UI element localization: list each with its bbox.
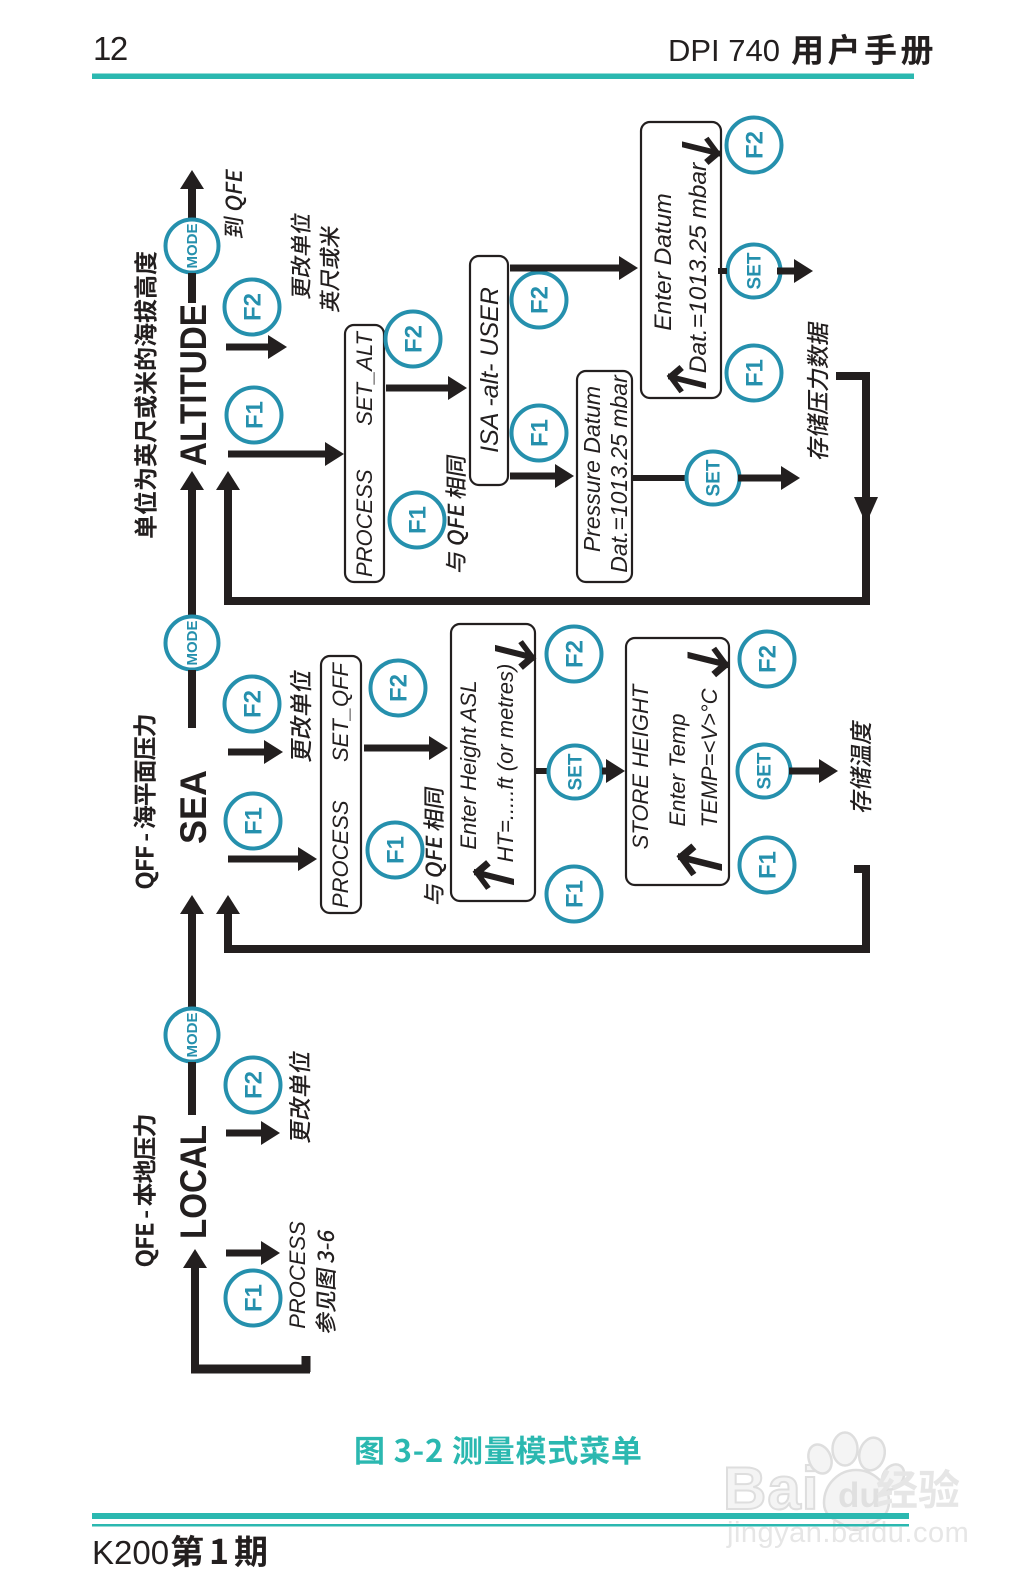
shaft MODE-SEA	[188, 670, 196, 728]
arrow F1 local process	[226, 1241, 280, 1265]
watermark Baidu logo	[723, 1455, 819, 1522]
footer 第 1 期	[171, 1535, 266, 1567]
sea feedback horizontal	[226, 945, 870, 953]
svg-text:SET: SET	[755, 752, 776, 789]
shaft MODE-LOCAL	[188, 1062, 196, 1115]
alt feedback horizontal	[226, 597, 870, 605]
alt feedback return arrow	[216, 471, 240, 605]
shaft MODE-ALTITUDE	[188, 273, 196, 303]
arrow ALTITUDE to QFE exit	[180, 170, 204, 222]
arrow F1 to SET_ALT box	[228, 442, 344, 466]
stub pd-set	[633, 475, 688, 481]
svg-text:F1: F1	[561, 880, 588, 908]
sea feedback vertical	[862, 865, 870, 949]
F1 circle local-process	[226, 1271, 281, 1326]
figure caption 图 3-2 测量模式菜单	[356, 1436, 640, 1465]
svg-text:F2: F2	[239, 690, 266, 718]
label 存储温度	[850, 719, 872, 813]
svg-text:MODE: MODE	[184, 621, 201, 666]
glyph up-arrow enter datum	[668, 364, 706, 398]
local loop horizontal	[191, 1365, 310, 1374]
arrow SET pd exit	[738, 466, 800, 490]
box STORE HEIGHT	[626, 638, 729, 885]
header 用户手册	[792, 34, 933, 66]
svg-text:F2: F2	[754, 645, 781, 673]
svg-text:12: 12	[93, 30, 127, 67]
F2 circle store	[740, 632, 795, 687]
arrow SET_QFF to Enter Height	[364, 736, 448, 760]
sea feedback stub	[854, 865, 870, 873]
svg-text:SET: SET	[745, 252, 766, 289]
footer rule thick	[92, 1513, 909, 1519]
svg-text:SET: SET	[704, 459, 725, 496]
svg-text:F1: F1	[382, 836, 409, 864]
stub datum-set	[718, 268, 727, 274]
alt feedback down arrowhead	[854, 497, 878, 524]
box ISA-alt-USER	[470, 256, 508, 485]
arrow SET height to store	[602, 759, 625, 783]
label 参见图 3-6	[315, 1229, 336, 1335]
MODE circle sea	[166, 617, 219, 670]
F1 circle sea-process	[226, 794, 281, 849]
arrow SET_ALT to ISA	[386, 376, 467, 400]
arrow SET store exit	[789, 759, 838, 783]
box PROCESS SET_ALT	[345, 325, 384, 582]
svg-text:F2: F2	[741, 131, 768, 159]
F2 circle height	[547, 627, 602, 682]
arrow ISA to Enter Datum	[510, 256, 638, 280]
label 更改单位 sea	[290, 669, 312, 763]
F2 circle local-units	[226, 1058, 281, 1113]
svg-text:Bai: Bai	[723, 1455, 819, 1522]
svg-text:ALTITUDE: ALTITUDE	[173, 304, 214, 466]
glyph down-arrow temp	[688, 642, 729, 678]
svg-text:F1: F1	[526, 419, 553, 447]
stub height-set	[536, 768, 556, 774]
svg-text:SEA: SEA	[173, 770, 214, 844]
footer rule thin	[92, 1524, 909, 1527]
F1 circle isa	[512, 406, 567, 461]
arrow F2 sea change units	[228, 740, 283, 764]
F2 circle setqff	[371, 661, 426, 716]
F2 circle alt-units	[225, 280, 280, 335]
svg-text:Enter Temp: Enter Temp	[665, 714, 690, 827]
sea feedback return arrow	[216, 895, 240, 953]
label 更改单位 local	[289, 1050, 311, 1144]
SET circle store	[738, 745, 791, 798]
svg-text:TEMP=<V>°C: TEMP=<V>°C	[697, 688, 722, 827]
svg-text:jingyan.baidu.com: jingyan.baidu.com	[726, 1517, 969, 1549]
svg-text:F1: F1	[240, 807, 267, 835]
box Enter Height ASL	[451, 624, 535, 901]
MODE circle local	[166, 1009, 219, 1062]
svg-text:F2: F2	[526, 286, 553, 314]
svg-text:PROCESS: PROCESS	[285, 1221, 310, 1329]
svg-text:LOCAL: LOCAL	[173, 1125, 214, 1239]
svg-text:du: du	[838, 1476, 881, 1515]
box Enter Datum	[641, 122, 721, 398]
F2 circle datum	[727, 118, 782, 173]
svg-text:HT=.....ft (or metres): HT=.....ft (or metres)	[493, 664, 518, 863]
svg-text:Enter Height ASL: Enter Height ASL	[456, 680, 481, 849]
svg-text:PROCESS: PROCESS	[352, 469, 377, 577]
svg-text:Dat.=1013.25 mbar: Dat.=1013.25 mbar	[685, 162, 712, 373]
svg-text:STORE HEIGHT: STORE HEIGHT	[628, 683, 653, 849]
svg-text:F2: F2	[385, 674, 412, 702]
label 英尺或米	[320, 224, 340, 312]
F1 circle height	[547, 867, 602, 922]
SET circle datum	[728, 245, 781, 298]
label 更改单位 alt	[290, 212, 310, 300]
watermark 经验	[877, 1469, 960, 1509]
svg-text:F2: F2	[400, 325, 427, 353]
spine LOCAL to SEA	[180, 895, 204, 1008]
alt feedback vertical	[862, 372, 870, 601]
arrow F1 to SET_QFF box	[228, 847, 317, 871]
svg-text:Dat.=1013.25 mbar: Dat.=1013.25 mbar	[606, 374, 632, 573]
svg-text:DPI 740: DPI 740	[668, 33, 780, 68]
alt feedback stub	[836, 372, 870, 380]
glyph down-arrow height	[495, 635, 535, 671]
SET circle pd	[687, 452, 740, 505]
svg-text:F2: F2	[239, 293, 266, 321]
watermark paw print	[804, 1433, 908, 1531]
label 存储压力数据	[807, 320, 829, 460]
box PROCESS SET_QFF	[321, 656, 361, 913]
svg-text:F1: F1	[754, 851, 781, 879]
svg-text:F1: F1	[404, 506, 431, 534]
svg-text:Enter Datum: Enter Datum	[650, 193, 677, 331]
F1 circle store	[740, 838, 795, 893]
arrow F2 local change units	[226, 1121, 280, 1145]
svg-text:F1: F1	[741, 359, 768, 387]
arrow F2 change units	[226, 335, 287, 359]
F2 circle setalt	[386, 312, 441, 367]
arrow SET datum exit	[777, 259, 813, 283]
LOCAL chinese caption	[133, 1115, 158, 1266]
svg-text:ISA -alt- USER: ISA -alt- USER	[476, 287, 504, 453]
arrow ISA F1 to Pressure Datum	[510, 464, 574, 488]
F1 circle setalt	[390, 493, 445, 548]
F1 circle datum	[727, 346, 782, 401]
svg-text:K200: K200	[92, 1534, 169, 1571]
svg-text:SET_QFF: SET_QFF	[328, 661, 353, 762]
label 与QFE相同 sea	[423, 786, 446, 905]
glyph up-arrow temp	[678, 842, 722, 881]
svg-text:F2: F2	[240, 1071, 267, 1099]
SEA chinese caption	[133, 715, 158, 888]
svg-text:SET: SET	[566, 753, 587, 790]
spine SEA to ALTITUDE	[180, 471, 204, 617]
svg-text:SET_ALT: SET_ALT	[352, 330, 377, 425]
label 与QFE相同 alt	[445, 454, 468, 573]
local loop return arrow	[183, 1249, 207, 1372]
ALTITUDE chinese caption	[134, 252, 157, 538]
label 到 QFE	[224, 168, 247, 239]
svg-text:MODE: MODE	[184, 1013, 201, 1058]
F2 circle sea-units	[225, 677, 280, 732]
glyph down-arrow enter datum	[682, 132, 720, 166]
MODE circle top	[166, 220, 219, 273]
glyph up-arrow height	[474, 859, 514, 895]
svg-text:PROCESS: PROCESS	[328, 800, 353, 908]
local loop stub	[302, 1356, 311, 1372]
F2 circle isa	[512, 273, 567, 328]
SET circle height	[549, 746, 602, 799]
box Pressure Datum	[577, 371, 632, 582]
F1 circle alt-process	[227, 388, 282, 443]
header rule	[92, 74, 914, 80]
svg-text:F2: F2	[561, 640, 588, 668]
F1 circle setqff	[368, 823, 423, 878]
svg-text:Pressure Datum: Pressure Datum	[579, 386, 605, 552]
svg-text:F1: F1	[240, 1284, 267, 1312]
svg-text:F1: F1	[241, 401, 268, 429]
svg-text:MODE: MODE	[184, 224, 201, 269]
